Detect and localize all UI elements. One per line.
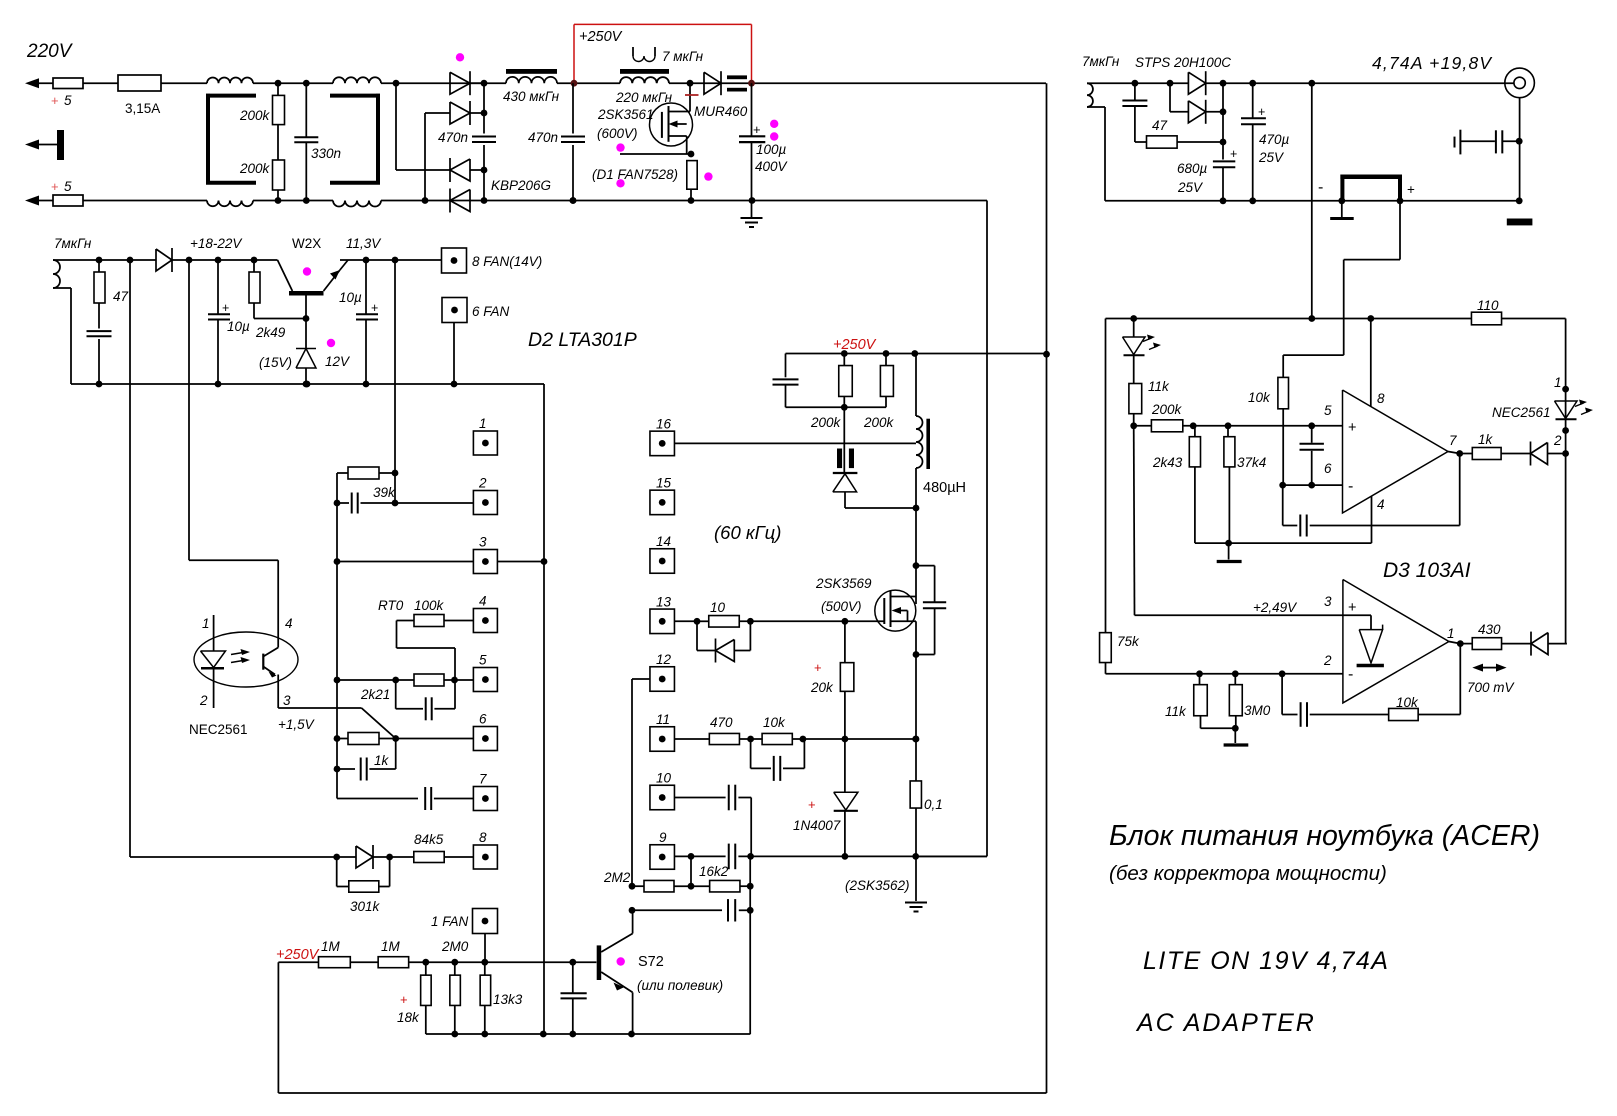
svg-text:2M0: 2M0 [441, 939, 469, 954]
svg-text:110: 110 [1477, 298, 1499, 313]
svg-text:4: 4 [285, 616, 293, 631]
svg-text:KBP206G: KBP206G [491, 178, 551, 193]
svg-text:7: 7 [1449, 433, 1457, 448]
svg-text:11: 11 [656, 712, 670, 727]
svg-text:39k: 39k [373, 485, 396, 500]
svg-text:10k: 10k [1248, 390, 1271, 405]
svg-text:6 FAN: 6 FAN [472, 304, 510, 319]
svg-text:RT0: RT0 [378, 598, 404, 613]
svg-text:301k: 301k [350, 899, 381, 914]
svg-text:+: + [51, 179, 59, 194]
svg-text:MUR460: MUR460 [694, 104, 748, 119]
svg-text:200k: 200k [1151, 402, 1183, 417]
svg-text:-: - [1348, 666, 1353, 683]
svg-text:75k: 75k [1117, 634, 1140, 649]
svg-text:1N4007: 1N4007 [793, 818, 841, 833]
svg-text:W2X: W2X [292, 236, 321, 251]
svg-text:16: 16 [656, 416, 672, 431]
svg-text:+: + [371, 301, 378, 315]
svg-text:+: + [808, 797, 816, 812]
svg-text:6: 6 [1324, 461, 1332, 476]
svg-text:220V: 220V [26, 41, 74, 62]
svg-text:13k3: 13k3 [493, 992, 523, 1007]
svg-text:470n: 470n [438, 130, 468, 145]
svg-text:+250V: +250V [579, 29, 623, 45]
svg-text:7мкГн: 7мкГн [54, 236, 92, 251]
svg-text:(2SK3562): (2SK3562) [845, 878, 910, 893]
svg-text:+: + [753, 122, 761, 137]
svg-text:+: + [400, 992, 408, 1007]
svg-text:4,74A +19,8V: 4,74A +19,8V [1372, 53, 1493, 73]
svg-text:220 мкГн: 220 мкГн [615, 90, 673, 105]
svg-text:25V: 25V [1177, 180, 1204, 195]
svg-text:5: 5 [64, 179, 72, 194]
svg-text:3: 3 [479, 535, 487, 550]
svg-text:(600V): (600V) [597, 126, 638, 141]
svg-text:NEC2561: NEC2561 [189, 722, 248, 737]
svg-text:11k: 11k [1165, 704, 1187, 719]
svg-text:Блок питания ноутбука (ACER): Блок питания ноутбука (ACER) [1109, 820, 1540, 852]
svg-text:1: 1 [479, 416, 487, 431]
svg-text:13: 13 [656, 594, 672, 609]
svg-text:37k4: 37k4 [1237, 455, 1266, 470]
svg-text:2k49: 2k49 [255, 325, 286, 340]
svg-text:+: + [1407, 182, 1415, 197]
svg-text:2: 2 [1553, 433, 1562, 448]
svg-text:330n: 330n [311, 146, 341, 161]
svg-text:2M2: 2M2 [603, 870, 631, 885]
svg-text:+18-22V: +18-22V [190, 236, 243, 251]
svg-text:(или полевик): (или полевик) [637, 978, 723, 993]
svg-text:8 FAN(14V): 8 FAN(14V) [472, 254, 542, 269]
svg-text:4: 4 [479, 594, 487, 609]
svg-text:1M: 1M [321, 939, 341, 954]
svg-text:+250V: +250V [833, 337, 877, 353]
svg-text:12V: 12V [325, 354, 351, 369]
svg-text:1k: 1k [374, 753, 390, 768]
svg-text:200k: 200k [863, 415, 895, 430]
svg-text:9: 9 [659, 830, 667, 845]
svg-text:11,3V: 11,3V [346, 236, 382, 251]
svg-text:(500V): (500V) [821, 599, 862, 614]
svg-text:+: + [1348, 600, 1356, 616]
svg-text:7 мкГн: 7 мкГн [662, 49, 704, 64]
svg-text:7: 7 [479, 772, 487, 787]
svg-text:AC ADAPTER: AC ADAPTER [1135, 1009, 1316, 1037]
svg-text:20k: 20k [810, 680, 834, 695]
svg-text:3: 3 [1324, 594, 1332, 609]
svg-text:100µ: 100µ [756, 142, 787, 157]
svg-text:2k43: 2k43 [1152, 455, 1183, 470]
svg-text:-: - [1348, 478, 1353, 495]
svg-text:470n: 470n [528, 130, 558, 145]
svg-text:11k: 11k [1148, 379, 1170, 394]
svg-text:16k2: 16k2 [699, 864, 729, 879]
svg-text:84k5: 84k5 [414, 832, 444, 847]
svg-text:(15V): (15V) [259, 355, 292, 370]
svg-text:12: 12 [656, 652, 672, 667]
svg-text:S72: S72 [638, 954, 664, 970]
svg-text:10: 10 [656, 771, 672, 786]
svg-text:+: + [51, 93, 59, 108]
svg-text:680µ: 680µ [1177, 161, 1208, 176]
svg-text:+1,5V: +1,5V [278, 717, 316, 732]
svg-text:2SK3561: 2SK3561 [597, 107, 654, 122]
svg-text:LITE ON 19V 4,74A: LITE ON 19V 4,74A [1143, 947, 1389, 975]
svg-text:480µH: 480µH [923, 480, 966, 496]
svg-text:3M0: 3M0 [1244, 703, 1271, 718]
svg-text:STPS 20H100C: STPS 20H100C [1135, 55, 1231, 70]
svg-text:0,1: 0,1 [924, 797, 943, 812]
svg-text:100k: 100k [414, 598, 445, 613]
svg-text:470µ: 470µ [1259, 132, 1290, 147]
svg-text:+: + [814, 660, 822, 675]
svg-text:8: 8 [1377, 391, 1385, 406]
svg-text:10k: 10k [1396, 695, 1419, 710]
svg-text:3: 3 [283, 693, 291, 708]
svg-text:2: 2 [1323, 653, 1332, 668]
svg-text:47: 47 [113, 289, 129, 304]
svg-text:+: + [1230, 147, 1237, 161]
svg-text:+250V: +250V [276, 947, 320, 963]
svg-text:700 mV: 700 mV [1467, 680, 1516, 695]
svg-text:2: 2 [478, 476, 487, 491]
svg-text:8: 8 [479, 830, 487, 845]
svg-text:430: 430 [1478, 622, 1501, 637]
svg-text:200k: 200k [810, 415, 842, 430]
svg-text:+: + [222, 301, 229, 315]
svg-text:25V: 25V [1258, 150, 1285, 165]
svg-text:1k: 1k [1478, 432, 1494, 447]
svg-text:10k: 10k [763, 715, 786, 730]
svg-text:(без корректора мощности): (без корректора мощности) [1109, 862, 1387, 885]
svg-text:+: + [1348, 420, 1356, 436]
svg-text:5: 5 [64, 93, 72, 108]
svg-text:10µ: 10µ [227, 319, 250, 334]
svg-text:(60 кГц): (60 кГц) [714, 522, 781, 543]
svg-text:3,15A: 3,15A [125, 101, 160, 116]
svg-text:-: - [1318, 179, 1323, 196]
svg-text:2SK3569: 2SK3569 [815, 576, 872, 591]
svg-text:2: 2 [199, 693, 208, 708]
svg-text:1M: 1M [381, 939, 401, 954]
svg-text:+2,49V: +2,49V [1253, 600, 1298, 615]
svg-text:D3 103AI: D3 103AI [1383, 559, 1471, 582]
svg-text:470: 470 [710, 715, 733, 730]
svg-text:4: 4 [1377, 497, 1385, 512]
svg-text:1: 1 [1447, 626, 1455, 641]
svg-text:5: 5 [1324, 403, 1332, 418]
svg-text:47: 47 [1152, 118, 1168, 133]
svg-text:6: 6 [479, 712, 487, 727]
svg-text:D2 LTA301P: D2 LTA301P [528, 329, 637, 351]
svg-text:1 FAN: 1 FAN [431, 914, 469, 929]
svg-text:(D1 FAN7528): (D1 FAN7528) [592, 167, 678, 182]
svg-text:1: 1 [1554, 375, 1562, 390]
svg-text:NEC2561: NEC2561 [1492, 405, 1551, 420]
svg-text:1: 1 [202, 616, 210, 631]
svg-text:400V: 400V [755, 159, 789, 174]
svg-text:18k: 18k [397, 1010, 420, 1025]
svg-text:14: 14 [656, 534, 671, 549]
svg-text:5: 5 [479, 653, 487, 668]
svg-text:200k: 200k [239, 161, 271, 176]
svg-text:10µ: 10µ [339, 290, 362, 305]
svg-text:+: + [1258, 105, 1265, 119]
svg-text:15: 15 [656, 475, 672, 490]
svg-text:430 мкГн: 430 мкГн [503, 89, 560, 104]
svg-text:2k21: 2k21 [360, 687, 390, 702]
svg-text:7мкГн: 7мкГн [1082, 54, 1120, 69]
svg-text:200k: 200k [239, 108, 271, 123]
svg-text:10: 10 [710, 600, 726, 615]
